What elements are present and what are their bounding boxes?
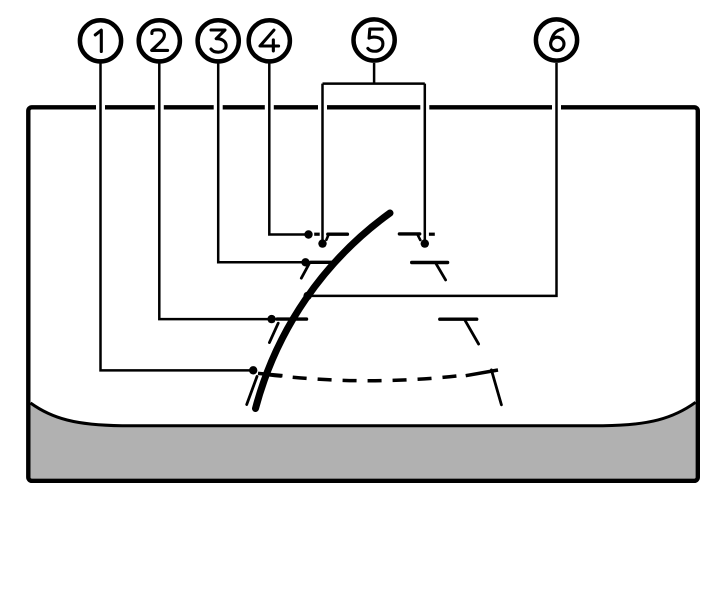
predicted course main curve: [256, 213, 391, 409]
far tick left leg: [326, 235, 328, 240]
near tick left leg: [269, 323, 278, 342]
leader line 6: [308, 63, 557, 296]
leader line 1: [101, 63, 254, 370]
dot 1: [249, 366, 257, 374]
bumper gray area: [31, 402, 696, 478]
callout circle 1: [80, 20, 121, 61]
dot 2: [267, 315, 275, 323]
mid tick right leg: [436, 263, 446, 280]
near tick left bar: [277, 317, 306, 320]
white gaps in frame where leader lines cross: [101, 98, 557, 118]
callout circle 5: [354, 19, 395, 60]
leader line 5 (bracket): [323, 63, 425, 244]
mid tick right bar: [412, 261, 448, 264]
dashed curve first segment: [258, 373, 283, 375]
dot 6: [303, 292, 311, 300]
leader line 2: [159, 63, 271, 319]
far tick right leg: [418, 235, 421, 241]
callout circle 3: [198, 20, 239, 61]
leader line 3: [218, 63, 305, 262]
callout circle 4: [249, 20, 290, 61]
far tick right dash: [429, 233, 435, 236]
callout circle 2: [139, 20, 180, 61]
far tick left bar: [328, 232, 348, 235]
far tick left dash: [314, 233, 320, 236]
monitor screen frame: [28, 107, 698, 481]
dashed curve right end leg: [491, 370, 501, 405]
mid tick left leg: [301, 264, 309, 279]
distance dashed curve: [258, 373, 466, 380]
dashed curve left end leg: [247, 377, 257, 405]
dot 5 left: [318, 239, 326, 247]
mid tick left bar: [311, 261, 333, 264]
dashed curve last segment: [466, 370, 498, 376]
far tick right bar: [399, 232, 419, 235]
dot 4: [304, 230, 312, 238]
dot 5 right: [421, 239, 429, 247]
bumper edge line: [31, 402, 696, 425]
near tick right bar: [440, 318, 477, 321]
leader line 4: [269, 63, 308, 235]
callout circle 6: [536, 19, 577, 60]
near tick right leg: [465, 320, 479, 344]
dot 3: [301, 258, 309, 266]
